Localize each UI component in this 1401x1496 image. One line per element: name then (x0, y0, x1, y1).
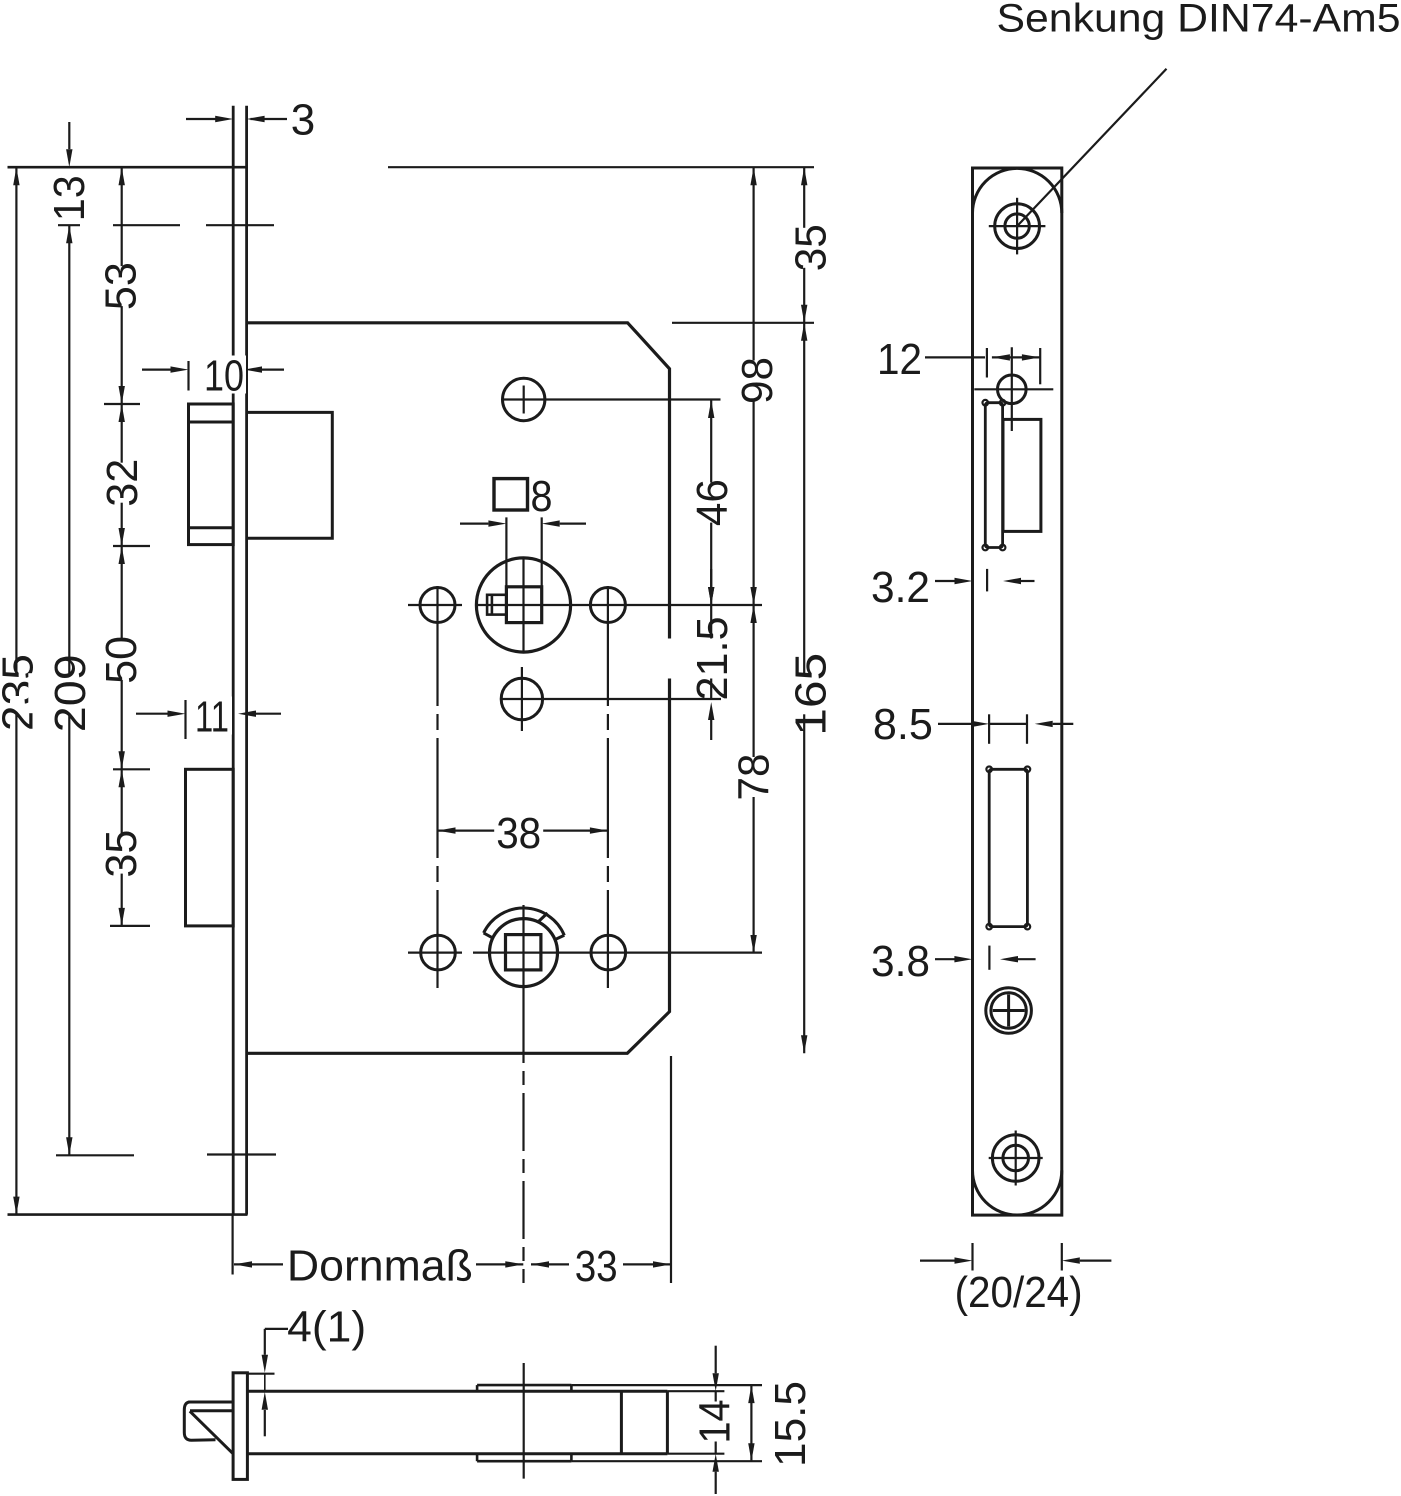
latch bolt head protruding from faceplate (189, 404, 234, 545)
tick and extension at 209 bottom (56, 1154, 134, 1156)
horizontal centerline through nut and side holes (408, 604, 462, 606)
middle hole centerlines (501, 698, 721, 700)
leader line from label to countersunk hole (1017, 69, 1166, 226)
faceplate front view - left edge line (232, 106, 235, 1215)
top screw hole centerlines (502, 398, 721, 400)
dimension 21.5 - nut to middle hole (710, 605, 712, 699)
nut vertical centerline (522, 558, 524, 652)
dimension text 50 (94, 640, 146, 680)
dimension 10 - latch protrusion (187, 361, 189, 391)
svg-text:35: 35 (787, 224, 836, 271)
dimension (20/24) - stulp width (971, 1243, 973, 1271)
dimension 11 - deadbolt protrusion (184, 700, 186, 739)
dimension Dornmass (234, 1261, 252, 1267)
deadbolt head protruding from faceplate (186, 769, 234, 926)
latch head bevel line upper (189, 421, 234, 424)
screw hole centerlines (974, 388, 1053, 390)
tick at 926 deadbolt bottom (110, 925, 150, 927)
top screw hole of case (503, 378, 545, 420)
svg-text:98: 98 (733, 357, 782, 404)
svg-text:8: 8 (531, 472, 553, 521)
bottom screw hole centerlines (989, 1157, 1043, 1159)
faceplate front view - right edge line (245, 106, 248, 1215)
dimension 38 - hole spacing (438, 829, 608, 831)
svg-text:33: 33 (575, 1242, 618, 1291)
svg-text:38: 38 (496, 809, 541, 858)
Dornmass extension line at faceplate (232, 1215, 234, 1275)
case top extension line (672, 322, 814, 324)
svg-text:165: 165 (787, 653, 836, 736)
bottom countersunk screw hole (992, 1135, 1039, 1182)
square 8 symbol (494, 479, 528, 510)
dimension 14 - case height (715, 1346, 717, 1374)
dimension 46 - screw hole to nut (710, 400, 712, 605)
svg-text:4(1): 4(1) (287, 1303, 366, 1352)
svg-text:3: 3 (291, 95, 315, 144)
cover lip bottom (477, 1460, 571, 1463)
inner vertical line near case end (620, 1391, 623, 1454)
dimension text 53 (94, 266, 146, 306)
dimension line 209 - screw hole distance (68, 225, 70, 1155)
lock case outline with chamfered right corners (248, 323, 670, 1054)
svg-text:35: 35 (97, 830, 146, 878)
latch bolt nose seen from below - top line (188, 1401, 233, 1404)
faceplate top edge with extension line (8, 166, 249, 169)
latch bolt visible in opening (1003, 419, 1041, 531)
case band right end (666, 1391, 669, 1454)
top countersunk screw hole (995, 204, 1040, 249)
dimension 13 - top to screw hole, outside arrows (68, 122, 70, 149)
top screw hole centerlines (989, 225, 1046, 227)
svg-text:Dornmaß: Dornmaß (287, 1242, 473, 1291)
stulp plate outline (973, 168, 1062, 1215)
upper right fixing hole (590, 588, 625, 623)
svg-text:Senkung DIN74-Am5: Senkung DIN74-Am5 (997, 0, 1401, 41)
svg-text:50: 50 (97, 636, 146, 684)
dimension text 35 (94, 834, 146, 874)
svg-text:32: 32 (98, 459, 147, 507)
dimension line 235 - overall faceplate length (15, 167, 17, 1214)
latch nose rounded front face (184, 1402, 215, 1440)
stacked dimension line 53/32/50/35 (121, 167, 123, 926)
lower left fixing hole (421, 935, 456, 970)
latch head bevel line lower (189, 526, 234, 529)
svg-text:78: 78 (730, 754, 779, 801)
spindle axis extension down to Dornmass dimension (522, 1005, 524, 1283)
svg-text:21.5: 21.5 (688, 617, 737, 701)
detent spring arc over follower (484, 908, 565, 935)
upper left fixing hole (420, 588, 455, 623)
phillips head fixing screw (986, 988, 1032, 1034)
svg-text:13: 13 (45, 175, 94, 221)
lip bottom extension for dim 15.5 (571, 1460, 762, 1462)
band top extension for dim 14 (667, 1390, 724, 1392)
tick at 769 deadbolt top (113, 768, 150, 770)
tick at 546 latch bottom (113, 545, 150, 547)
bottom view case band top edge (247, 1390, 667, 1393)
middle hole below nut (501, 678, 542, 719)
dimension 3 - faceplate thickness (186, 118, 216, 120)
right dash-dot centerline between holes (607, 586, 609, 988)
svg-text:11: 11 (195, 692, 229, 741)
svg-text:3.2: 3.2 (871, 563, 930, 612)
dimension 15.5 - height over lips (750, 1385, 752, 1461)
svg-text:15.5: 15.5 (766, 1381, 815, 1467)
svg-text:3.8: 3.8 (871, 937, 930, 986)
spindle centerline in bottom view (523, 1363, 525, 1479)
lower follower (WC follower) circle (490, 919, 558, 987)
dimension 33 - spindle to case edge (531, 1261, 549, 1267)
spring tab on nut (487, 595, 506, 615)
dimension text 32 (95, 463, 147, 503)
svg-text:12: 12 (877, 335, 922, 384)
latch nose second line (190, 1409, 233, 1412)
faceplate top surface extension line (247, 1373, 274, 1375)
left dash-dot centerline between holes (436, 586, 438, 988)
lower follower centerline extensions (408, 951, 462, 953)
spindle square hole in nut (506, 587, 541, 623)
lower follower square hole (506, 935, 541, 970)
svg-text:46: 46 (688, 479, 737, 526)
deadbolt slot in stulp (989, 769, 1027, 926)
latch opening slot in stulp (985, 403, 1002, 548)
svg-text:209: 209 (46, 654, 95, 732)
dimension line 98 and 78 (752, 167, 754, 953)
svg-text:10: 10 (204, 351, 244, 400)
band bottom extension for dim 14 (667, 1453, 724, 1455)
faceplate bottom edge with extension line (8, 1213, 248, 1216)
dimension 8 arrows and extension lines (460, 522, 488, 524)
stulp rounded end arc bottom (973, 1170, 1062, 1215)
stulp rounded end arc top (973, 168, 1062, 213)
follower vertical centerline (522, 905, 524, 1005)
bottom view case band bottom edge (247, 1452, 667, 1455)
lower right fixing hole (591, 935, 626, 970)
notch line in detent arc (538, 913, 548, 923)
dimension line 35 and 165 right side (803, 167, 805, 1053)
handle follower nut circle (476, 558, 570, 652)
extension line at case right edge for 33 (670, 1056, 672, 1283)
svg-text:14: 14 (690, 1400, 739, 1444)
lip top extension for dim 15.5 (571, 1384, 762, 1386)
top extension line for dims 98 and 35 (388, 166, 814, 168)
cover lip top (477, 1384, 571, 1387)
svg-text:8.5: 8.5 (873, 700, 933, 749)
svg-text:(20/24): (20/24) (955, 1268, 1083, 1317)
svg-text:53: 53 (97, 262, 146, 310)
latch nose bevel diagonal (190, 1411, 233, 1453)
dimension 4(1) leader and arrows (265, 1328, 288, 1330)
tick at 404 latch top (104, 403, 140, 405)
screw hole above latch opening (998, 375, 1027, 404)
latch bolt body inside case (248, 412, 332, 538)
tick and extension at 13/209 boundary (58, 224, 80, 226)
bottom view faceplate cross-section (233, 1373, 247, 1480)
